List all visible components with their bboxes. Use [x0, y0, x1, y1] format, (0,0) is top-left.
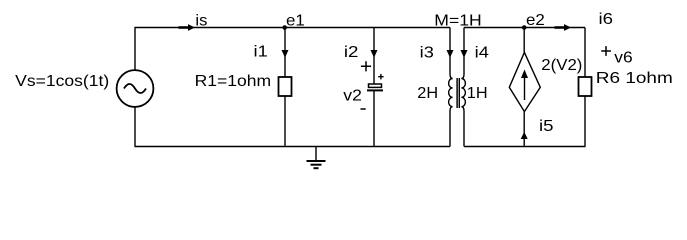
wire right vertical (R6 branch) — [584, 28, 586, 147]
svg-text:i1: i1 — [254, 44, 268, 61]
dependent source diamond — [509, 52, 540, 111]
svg-text:R6 1ohm: R6 1ohm — [596, 70, 673, 87]
svg-text:i3: i3 — [420, 45, 434, 62]
svg-text:M=1H: M=1H — [434, 13, 481, 30]
dependent source arrow (up) — [524, 78, 526, 100]
source Vs circle — [117, 70, 154, 107]
inductor L2 secondary (1H) with wires — [461, 28, 465, 147]
svg-text:R1=1ohm: R1=1ohm — [195, 73, 272, 90]
capacitor C top plate — [369, 84, 382, 87]
svg-text:1H: 1H — [467, 85, 488, 102]
transformer core lines — [457, 78, 459, 108]
svg-text:e1: e1 — [286, 12, 305, 29]
arrow is (right, on top rail) — [179, 26, 189, 29]
wire dependent source branch — [523, 28, 525, 147]
svg-text:i4: i4 — [475, 45, 489, 62]
node e2 dot — [522, 25, 527, 30]
resistor R1 — [279, 77, 292, 96]
capacitor C bottom plate — [367, 89, 383, 91]
label + (v2 polarity) — [361, 61, 371, 71]
wire R1 branch vertical — [284, 28, 286, 147]
ground — [315, 147, 317, 162]
label - (v2 polarity) — [361, 108, 366, 110]
svg-text:i2: i2 — [344, 44, 359, 61]
svg-text:v2: v2 — [343, 88, 362, 105]
wire top rail (secondary side) — [464, 27, 585, 29]
label + (capacitor small) — [378, 74, 383, 79]
svg-text:2H: 2H — [417, 85, 438, 102]
wire bottom rail (secondary side) — [464, 146, 586, 148]
arrow i4 (down) — [461, 50, 468, 58]
svg-text:i6: i6 — [599, 11, 614, 28]
resistor R6 — [579, 77, 592, 96]
label + (v6 polarity) — [601, 46, 611, 56]
svg-text:2(V2): 2(V2) — [541, 57, 582, 74]
source sine wave — [124, 84, 146, 93]
arrow i2 (down) — [371, 50, 378, 58]
svg-text:i5: i5 — [539, 118, 554, 135]
arrow i6 (right, on top rail) — [555, 26, 565, 29]
svg-text:e2: e2 — [526, 12, 545, 29]
svg-text:is: is — [195, 13, 207, 30]
wire top rail (primary side) — [135, 27, 451, 29]
wire capacitor branch vertical — [373, 28, 375, 147]
svg-text:Vs=1cos(1t): Vs=1cos(1t) — [15, 73, 109, 90]
arrow i1 (down) — [282, 50, 289, 58]
inductor L1 primary (2H) with wires — [449, 28, 453, 147]
arrow i3 (down) — [447, 50, 454, 58]
wire left vertical (source branch) — [134, 28, 136, 147]
arrow i5 (up, on bottom wire) — [521, 132, 528, 139]
wire bottom rail (primary side) — [135, 146, 451, 148]
svg-text:v6: v6 — [614, 49, 633, 66]
node e1 dot — [282, 25, 287, 30]
